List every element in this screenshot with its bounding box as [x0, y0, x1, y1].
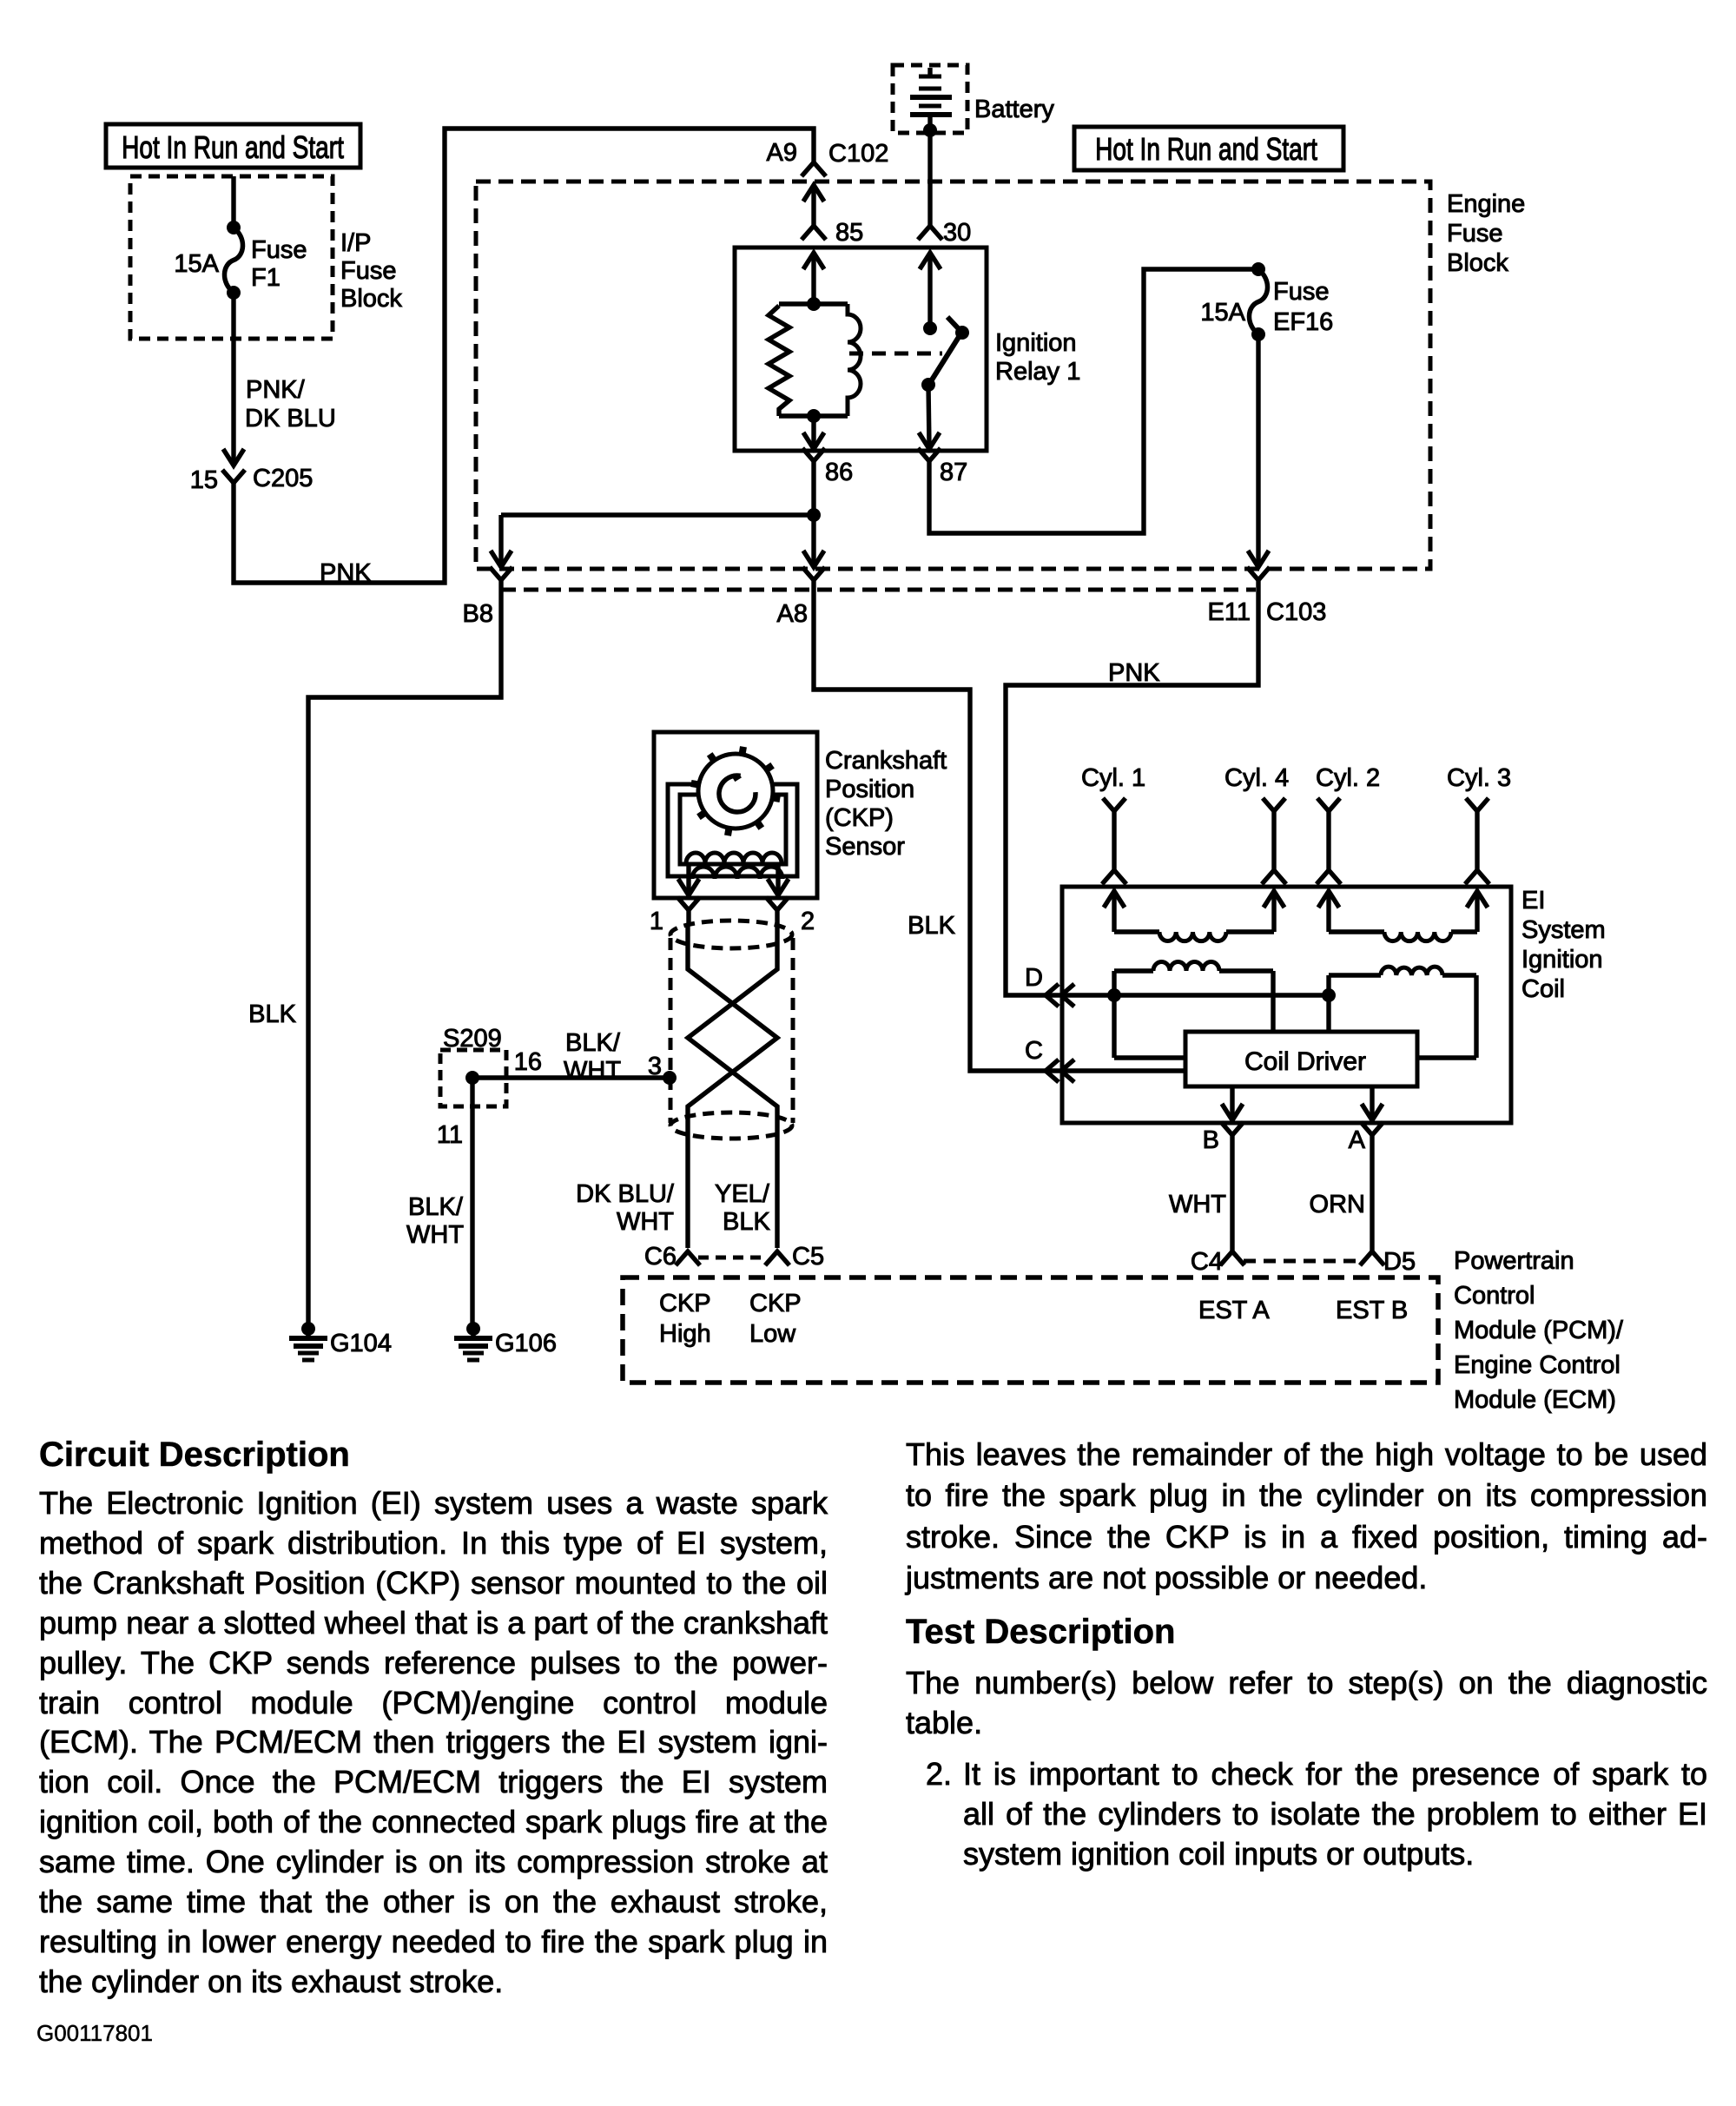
- svg-text:2: 2: [801, 908, 815, 935]
- svg-text:Engine: Engine: [1447, 190, 1525, 218]
- svg-text:C102: C102: [828, 140, 888, 168]
- svg-text:Powertrain: Powertrain: [1454, 1247, 1574, 1275]
- svg-text:CKP: CKP: [749, 1290, 802, 1317]
- svg-text:DK BLU: DK BLU: [245, 405, 336, 432]
- svg-text:S209: S209: [443, 1025, 502, 1053]
- svg-text:BLK: BLK: [248, 1000, 296, 1028]
- svg-text:Cyl. 2: Cyl. 2: [1316, 764, 1380, 792]
- svg-text:Coil: Coil: [1521, 975, 1565, 1003]
- svg-text:11: 11: [437, 1121, 463, 1149]
- svg-text:G104: G104: [330, 1330, 392, 1357]
- svg-text:Relay 1: Relay 1: [995, 358, 1080, 386]
- svg-text:F1: F1: [251, 264, 281, 292]
- svg-text:Low: Low: [749, 1320, 796, 1348]
- svg-text:C6: C6: [644, 1243, 677, 1271]
- svg-text:A8: A8: [777, 600, 808, 628]
- svg-text:30: 30: [943, 219, 971, 247]
- svg-text:High: High: [659, 1320, 711, 1348]
- svg-text:Fuse: Fuse: [1447, 220, 1502, 248]
- svg-text:PNK/: PNK/: [246, 376, 306, 404]
- svg-text:BLK/: BLK/: [565, 1029, 621, 1057]
- svg-text:Ignition: Ignition: [1521, 946, 1603, 974]
- svg-text:3: 3: [648, 1053, 662, 1080]
- svg-text:Module (PCM)/: Module (PCM)/: [1454, 1317, 1624, 1344]
- svg-text:D: D: [1025, 964, 1043, 992]
- svg-text:Cyl. 1: Cyl. 1: [1081, 764, 1145, 792]
- svg-text:B: B: [1203, 1126, 1219, 1154]
- svg-text:15: 15: [190, 466, 218, 494]
- svg-text:WHT: WHT: [617, 1208, 674, 1236]
- svg-text:(CKP): (CKP): [825, 804, 894, 832]
- svg-text:E11: E11: [1208, 598, 1251, 626]
- svg-text:85: 85: [835, 219, 863, 247]
- svg-text:Fuse: Fuse: [340, 257, 396, 285]
- svg-text:C103: C103: [1266, 598, 1326, 626]
- svg-text:ORN: ORN: [1310, 1191, 1365, 1218]
- svg-text:Crankshaft: Crankshaft: [825, 747, 947, 775]
- svg-text:Sensor: Sensor: [825, 833, 905, 861]
- svg-text:C4: C4: [1191, 1248, 1223, 1276]
- svg-text:Cyl. 3: Cyl. 3: [1447, 764, 1511, 792]
- svg-text:I/P: I/P: [340, 229, 371, 257]
- svg-text:Hot In Run and Start: Hot In Run and Start: [122, 130, 344, 165]
- svg-text:15A: 15A: [1200, 299, 1245, 327]
- svg-text:PNK: PNK: [320, 559, 372, 587]
- svg-text:Module (ECM): Module (ECM): [1454, 1386, 1616, 1414]
- svg-text:C: C: [1025, 1037, 1043, 1065]
- svg-text:Fuse: Fuse: [1273, 278, 1329, 306]
- svg-text:Cyl. 4: Cyl. 4: [1224, 764, 1289, 792]
- svg-text:Ignition: Ignition: [995, 329, 1077, 357]
- svg-text:System: System: [1521, 916, 1606, 944]
- svg-text:WHT: WHT: [1169, 1191, 1226, 1218]
- svg-text:G106: G106: [495, 1330, 557, 1357]
- svg-text:D5: D5: [1383, 1248, 1416, 1276]
- svg-text:DK BLU/: DK BLU/: [576, 1180, 675, 1208]
- svg-text:BLK: BLK: [908, 912, 955, 940]
- svg-text:Coil Driver: Coil Driver: [1244, 1047, 1366, 1076]
- svg-text:87: 87: [940, 459, 967, 486]
- svg-text:Battery: Battery: [974, 96, 1054, 123]
- svg-text:A: A: [1349, 1126, 1366, 1154]
- svg-text:EST B: EST B: [1336, 1297, 1408, 1324]
- svg-text:CKP: CKP: [659, 1290, 711, 1317]
- svg-text:BLK/: BLK/: [408, 1193, 464, 1221]
- svg-text:Control: Control: [1454, 1282, 1535, 1310]
- svg-text:EI: EI: [1521, 887, 1545, 914]
- svg-text:A9: A9: [767, 139, 797, 167]
- svg-text:16: 16: [514, 1048, 542, 1076]
- svg-text:Fuse: Fuse: [251, 236, 307, 264]
- svg-text:Block: Block: [340, 285, 402, 313]
- svg-text:1: 1: [650, 908, 663, 935]
- svg-text:YEL/: YEL/: [715, 1180, 770, 1208]
- svg-text:Position: Position: [825, 776, 914, 803]
- svg-text:Engine Control: Engine Control: [1454, 1351, 1620, 1379]
- svg-text:C5: C5: [792, 1243, 824, 1271]
- svg-text:C205: C205: [253, 465, 313, 492]
- svg-text:EST A: EST A: [1198, 1297, 1270, 1324]
- svg-text:15A: 15A: [174, 250, 219, 278]
- svg-text:EF16: EF16: [1273, 308, 1333, 336]
- svg-text:BLK: BLK: [723, 1208, 770, 1236]
- svg-text:PNK: PNK: [1108, 659, 1160, 687]
- svg-text:B8: B8: [463, 600, 493, 628]
- svg-text:WHT: WHT: [564, 1057, 621, 1085]
- svg-text:Block: Block: [1447, 249, 1508, 277]
- svg-text:Hot In Run and Start: Hot In Run and Start: [1095, 132, 1317, 167]
- svg-text:WHT: WHT: [406, 1221, 464, 1249]
- svg-text:86: 86: [825, 459, 853, 486]
